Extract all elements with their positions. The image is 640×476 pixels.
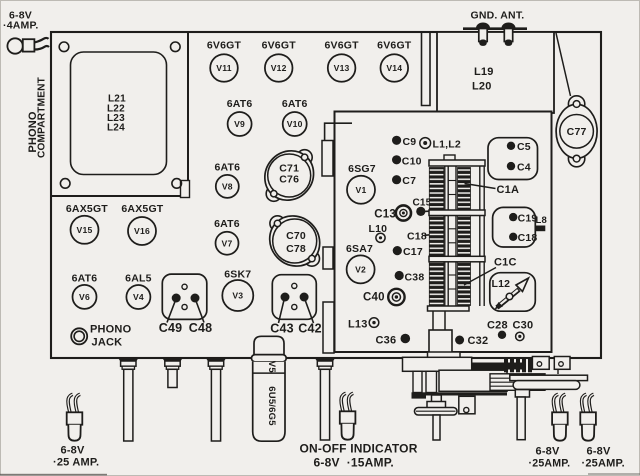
svg-text:V13: V13 [334,63,350,73]
coil L8 [536,215,548,231]
capacitor C38 [395,271,425,284]
tube V10 (6AT6) [282,98,308,136]
capacitor can C77 [556,96,597,167]
pilot lamp bottom-right 2 [580,394,596,440]
tube V3 (6SK7) [222,269,253,312]
caption 6-8V .25AMP right [582,446,625,470]
terminal lug ANT [502,23,516,46]
svg-text:6AT6: 6AT6 [214,162,240,174]
svg-text:L24: L24 [107,123,125,134]
svg-text:C78: C78 [286,243,306,255]
svg-text:V11: V11 [216,63,231,73]
svg-text:JACK: JACK [92,336,123,348]
tube V1 (6SG7) [347,163,376,204]
svg-text:6V6GT: 6V6GT [262,40,297,52]
control shaft 4 [315,358,336,440]
svg-text:V7: V7 [222,238,233,248]
svg-text:·25AMP.: ·25AMP. [529,458,571,470]
phono inner plate [71,52,167,175]
svg-text:C10: C10 [402,155,422,167]
svg-text:·4AMP.: ·4AMP. [3,20,38,32]
tube V12 (6V6GT) [262,40,297,82]
svg-text:C7: C7 [402,175,416,187]
capacitor C28 [487,319,508,339]
tuning shaft and pulley [415,395,458,440]
tab on phono box edge [181,181,190,198]
capacitor can C70/C78 [259,206,330,277]
right tuning shaft [515,390,529,440]
svg-text:C42: C42 [298,322,322,336]
svg-text:COMPARTMENT: COMPARTMENT [37,76,48,158]
capacitor C13 [374,205,411,220]
svg-text:C13: C13 [374,209,396,221]
svg-text:L19: L19 [474,66,494,78]
caption 6-8V .25AMP left [53,445,99,469]
svg-text:V10: V10 [287,119,303,129]
svg-text:6AT6: 6AT6 [227,98,253,110]
svg-text:C40: C40 [363,291,385,303]
svg-text:6U5/6G5: 6U5/6G5 [266,386,277,426]
tube V6 (6AT6) [72,273,98,309]
svg-text:6-8V: 6-8V [536,446,560,458]
svg-text:6AX5GT: 6AX5GT [66,203,108,215]
svg-text:PHONO: PHONO [90,323,132,335]
caption 6-8V .25AMP mid [529,446,571,470]
svg-text:C28: C28 [487,319,508,331]
on-off indicator lamp [340,393,356,439]
shield partition [422,32,431,106]
scan artifact bottom-right [588,473,640,475]
capacitor C9 [392,136,416,148]
capacitor C15 [413,198,438,216]
svg-text:V12: V12 [271,63,287,73]
svg-text:V4: V4 [133,292,144,302]
svg-text:V8: V8 [222,182,233,192]
control shaft 1 [118,358,139,441]
svg-text:V15: V15 [77,225,93,235]
caption ON-OFF INDICATOR [300,442,418,470]
can C19 C18 [493,207,538,247]
tube V7 (6AT6) [214,218,240,255]
tube V16 (6AX5GT) [121,203,163,245]
scan artifact bottom-left [0,474,107,476]
tube V11 (6V6GT) [207,40,242,82]
svg-text:C17: C17 [403,246,423,258]
terminal lug GND [476,23,490,46]
svg-text:V1: V1 [356,185,367,195]
svg-text:V6: V6 [79,292,90,302]
pilot lamp P1 top-left 6-8V .4AMP [3,10,49,54]
tuner sub-chassis box [335,112,552,353]
capacitor C40 [363,289,405,305]
svg-text:ON-OFF INDICATOR: ON-OFF INDICATOR [300,442,418,456]
pilot lamp bottom-right 1 [552,394,568,440]
svg-text:L10: L10 [369,223,388,235]
tuning gang capacitor C1 [428,155,486,355]
svg-text:V2: V2 [355,265,366,275]
svg-text:6AT6: 6AT6 [214,218,240,230]
svg-text:C48: C48 [189,321,213,335]
svg-text:·25 AMP.: ·25 AMP. [53,457,99,469]
capacitor C7 [392,175,416,187]
svg-text:6SG7: 6SG7 [348,163,376,175]
svg-text:V5: V5 [266,361,277,374]
tuning eye tube V5 6U5/6G5 [252,336,287,441]
svg-text:V14: V14 [386,63,402,73]
svg-text:C15: C15 [413,198,432,209]
chassis fold line [556,33,571,96]
svg-text:V3: V3 [232,291,243,301]
control shaft 3 [206,358,227,441]
can C5 C4 [488,138,538,180]
svg-text:C5: C5 [517,141,531,153]
svg-text:C32: C32 [468,335,489,347]
svg-text:C43: C43 [270,322,294,336]
dial drive mechanism [403,352,546,399]
svg-text:6V6GT: 6V6GT [207,40,242,52]
svg-text:C9: C9 [403,136,417,148]
tube V2 (6SA7) [346,243,375,283]
capacitor C30 [513,319,534,340]
phono jack [71,323,131,348]
svg-text:6AT6: 6AT6 [282,98,308,110]
label C1A [465,184,520,196]
GND ANT terminal strip [463,10,527,29]
phono compartment box [51,32,188,196]
svg-text:6SK7: 6SK7 [224,269,251,281]
tube V4 (6AL5) [125,273,151,310]
svg-text:·25AMP.: ·25AMP. [582,458,625,470]
svg-text:V16: V16 [134,226,150,236]
coil L1,L2 [420,138,461,151]
coil L10 [369,223,388,243]
svg-text:6V6GT: 6V6GT [377,40,412,52]
tuner box top-left step [325,123,352,141]
svg-text:GND. ANT.: GND. ANT. [471,10,525,22]
coil can L12 [490,273,536,312]
capacitor C10 [392,155,422,167]
svg-text:C18: C18 [518,232,538,244]
svg-text:6V6GT: 6V6GT [324,40,359,52]
svg-text:6AT6: 6AT6 [72,273,98,285]
svg-text:C38: C38 [405,272,425,284]
svg-text:C49: C49 [159,321,183,335]
chassis outline [51,32,601,358]
tube V15 (6AX5GT) [66,203,108,244]
svg-text:6SA7: 6SA7 [346,243,373,255]
svg-text:C18: C18 [407,231,427,243]
capacitor can C71/C76 [255,141,324,210]
bracket with hole [459,396,475,414]
tube V14 (6V6GT) [377,40,412,82]
control shaft 2 (stub) [162,358,183,388]
svg-text:L12: L12 [492,278,511,290]
svg-text:L1,L2: L1,L2 [433,139,461,151]
coil L13 [348,318,379,330]
capacitor C36 [376,334,411,347]
tube V8 (6AT6) [214,162,240,198]
IF transformer can C49/C48 [159,274,213,335]
svg-text:6AL5: 6AL5 [125,273,151,285]
svg-text:L13: L13 [348,318,368,330]
svg-text:V9: V9 [234,119,245,129]
svg-text:L20: L20 [472,81,492,93]
svg-text:6-8V: 6-8V [587,446,611,458]
capacitor C18 pointer [407,231,439,243]
tuner box mounting tabs [322,141,333,177]
capacitor C17 [393,246,423,258]
svg-text:6AX5GT: 6AX5GT [121,203,163,215]
svg-text:C76: C76 [279,174,299,186]
svg-text:C36: C36 [376,335,397,347]
svg-text:6-8V: 6-8V [61,445,85,457]
svg-text:C77: C77 [567,126,587,138]
pilot lamp bottom-left [67,394,83,440]
svg-text:6-8V ·15AMP.: 6-8V ·15AMP. [314,456,394,470]
svg-text:C1A: C1A [497,184,520,196]
label C1C [464,257,517,286]
coils L21 L22 L23 L24 [107,94,126,134]
svg-text:C19: C19 [518,212,538,224]
tube V13 (6V6GT) [324,40,359,82]
screws [59,42,181,188]
svg-text:C4: C4 [517,162,531,174]
svg-text:L8: L8 [536,215,548,226]
antenna coil box L19 L20 [437,32,554,113]
tube V9 (6AT6) [227,98,253,136]
phono compartment label [27,76,48,158]
svg-text:C1C: C1C [494,257,517,269]
capacitor C32 [455,335,488,347]
rear apron brackets [532,357,570,375]
svg-text:C70: C70 [286,230,306,242]
dial drum plates [510,375,588,389]
svg-text:C30: C30 [513,319,534,331]
IF transformer can C43/C42 [270,275,322,336]
